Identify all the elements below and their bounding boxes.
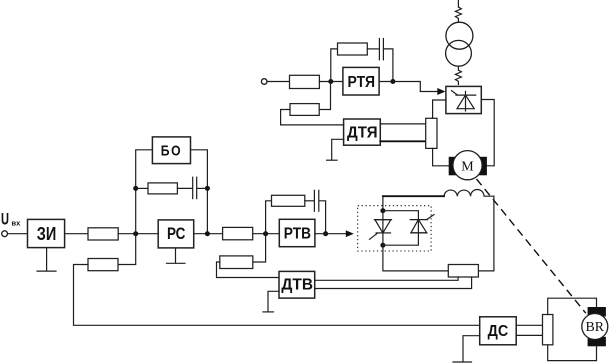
resistor R1 <box>88 228 118 240</box>
transformer T <box>446 22 473 66</box>
tachogenerator BR with brushes <box>582 307 608 346</box>
wire transformer to thyristor converter <box>455 66 461 84</box>
capacitor C2 <box>314 190 318 211</box>
wire ДТВ lower tap to R9 <box>315 277 472 289</box>
wire ДС lower tap to R10 <box>516 334 542 336</box>
wire R6 to РТЯ <box>319 81 343 83</box>
wire РС output to R3 <box>194 233 223 235</box>
dashed mechanical coupling motor to BR <box>477 179 586 313</box>
svg-text:ДТЯ: ДТЯ <box>347 125 378 142</box>
wire ДТЯ upper tap to shunt R11 <box>380 123 425 125</box>
node C junction at РТВ input <box>263 231 268 236</box>
node H bottom junction in field unit <box>380 243 385 248</box>
resistor R7 feedback of РТЯ <box>338 43 368 55</box>
wire terminal to R6 <box>267 81 290 83</box>
wire node E up to R7 <box>331 49 338 82</box>
wire converter right output down to motor right brush <box>481 100 494 166</box>
node B junction <box>205 231 210 236</box>
wire ЗИ to R1 <box>65 233 88 235</box>
resistor R5 <box>220 256 253 269</box>
block ДТЯ <box>344 119 381 145</box>
svg-text:BR: BR <box>586 320 605 335</box>
wire node C up to R4 <box>266 201 272 234</box>
ground of ДС <box>453 336 480 362</box>
wire БО output down to node B <box>191 150 208 234</box>
node F junction at РТЯ output <box>390 79 395 84</box>
resistor R9 field current sense <box>448 265 478 278</box>
wire R5 to ДТВ output <box>217 262 280 278</box>
ground of ДТВ <box>263 291 279 312</box>
thyristor VS2 right, cathode up <box>410 215 434 233</box>
svg-text:ЗИ: ЗИ <box>37 224 57 244</box>
field circuit top rail <box>383 195 444 197</box>
block БО <box>152 137 190 164</box>
node on right column for RC branch <box>205 186 210 191</box>
block ДС <box>480 317 517 345</box>
wire AC line to transformer <box>455 0 461 22</box>
input terminal of current loop <box>261 79 267 85</box>
wire node A up to БО input <box>136 150 153 234</box>
svg-text:ДС: ДС <box>488 323 509 340</box>
wire R10 top to BR top <box>548 298 597 314</box>
shunt resistor R11 vertical <box>426 118 437 148</box>
inner loop wires of field unit <box>383 211 419 246</box>
wire C3 down to РТЯ output node <box>384 49 393 82</box>
resistor R6 <box>290 75 320 88</box>
wire C2 down to РТВ output node <box>320 201 326 234</box>
ground of ДТЯ <box>327 139 344 160</box>
wire rail down into dotted unit <box>382 196 384 211</box>
wire converter left output to R11 top <box>433 100 446 118</box>
resistor R10 divider vertical <box>543 315 553 345</box>
wire РТЯ output with arrow to armature thyristor converter <box>379 82 445 96</box>
wire C1 to node B column <box>197 187 207 189</box>
wire R7 to capacitor C3 <box>367 48 378 50</box>
wire R11 bottom to motor left brush <box>433 148 449 165</box>
node A junction <box>133 231 138 236</box>
armature thyristor converter block <box>446 86 481 113</box>
svg-text:РТЯ: РТЯ <box>348 74 376 91</box>
wire to resistor of RC branch <box>136 187 148 189</box>
resistor R8 <box>290 104 319 116</box>
capacitor C3 <box>379 39 383 60</box>
field circuit bottom rail to R9 <box>383 245 448 271</box>
wire ДС upper tap to R10 <box>516 324 542 326</box>
node G top junction in field unit <box>380 208 385 213</box>
wire terminal to ЗИ <box>8 233 28 235</box>
dotted box of field thyristor unit <box>358 206 431 251</box>
wire R3 to РТВ <box>253 233 280 235</box>
node D junction at РТВ output <box>323 231 328 236</box>
wire R1 to РС <box>118 233 158 235</box>
wire node C down to R5 <box>253 234 266 262</box>
ground under РС <box>167 248 186 263</box>
resistor R4 feedback of РТВ <box>272 195 305 206</box>
wire РТВ output with arrow to field thyristor unit <box>315 230 354 237</box>
block РТЯ <box>343 67 379 95</box>
wire R10 bottom to BR bottom <box>548 345 597 361</box>
block РТВ <box>279 219 315 246</box>
node E junction at РТЯ input <box>328 79 333 84</box>
resistor R3 <box>223 227 253 239</box>
wire R2 long speed feedback to ДС <box>74 265 480 326</box>
wire resistor to capacitor C1 <box>177 187 192 189</box>
svg-text:ДТВ: ДТВ <box>281 276 313 293</box>
motor M with brushes <box>449 151 487 180</box>
smoothing reactor L (motor field winding) <box>444 190 494 197</box>
svg-text:РТВ: РТВ <box>284 226 311 243</box>
svg-text:U: U <box>1 210 9 228</box>
block РС <box>158 220 194 248</box>
wire R4 to capacitor C2 <box>305 200 314 202</box>
node on left column for RC branch <box>133 186 138 191</box>
thyristor VS1 left, cathode down <box>370 220 392 240</box>
svg-text:вх: вх <box>12 218 22 227</box>
wire R8 left to ДТЯ input <box>281 110 344 125</box>
resistor R2 <box>88 259 118 271</box>
svg-text:М: М <box>461 159 474 174</box>
block ДТВ <box>279 271 315 298</box>
wire ДТВ upper tap to R9 <box>315 277 458 280</box>
field circuit right side down to R9 <box>478 196 494 271</box>
wire R8 right to node E <box>319 82 330 110</box>
svg-text:БО: БО <box>161 143 182 160</box>
resistor in RC branch <box>148 183 177 194</box>
input terminal Uвх <box>2 231 8 237</box>
label Uвх <box>1 210 21 228</box>
wire ДТЯ lower tap to shunt R11 <box>380 140 425 142</box>
block ЗИ <box>28 219 65 247</box>
ground under ЗИ <box>37 248 56 271</box>
wire R2 right end to node A <box>118 234 136 265</box>
capacitor C1 <box>193 177 197 198</box>
svg-text:РС: РС <box>167 224 185 243</box>
